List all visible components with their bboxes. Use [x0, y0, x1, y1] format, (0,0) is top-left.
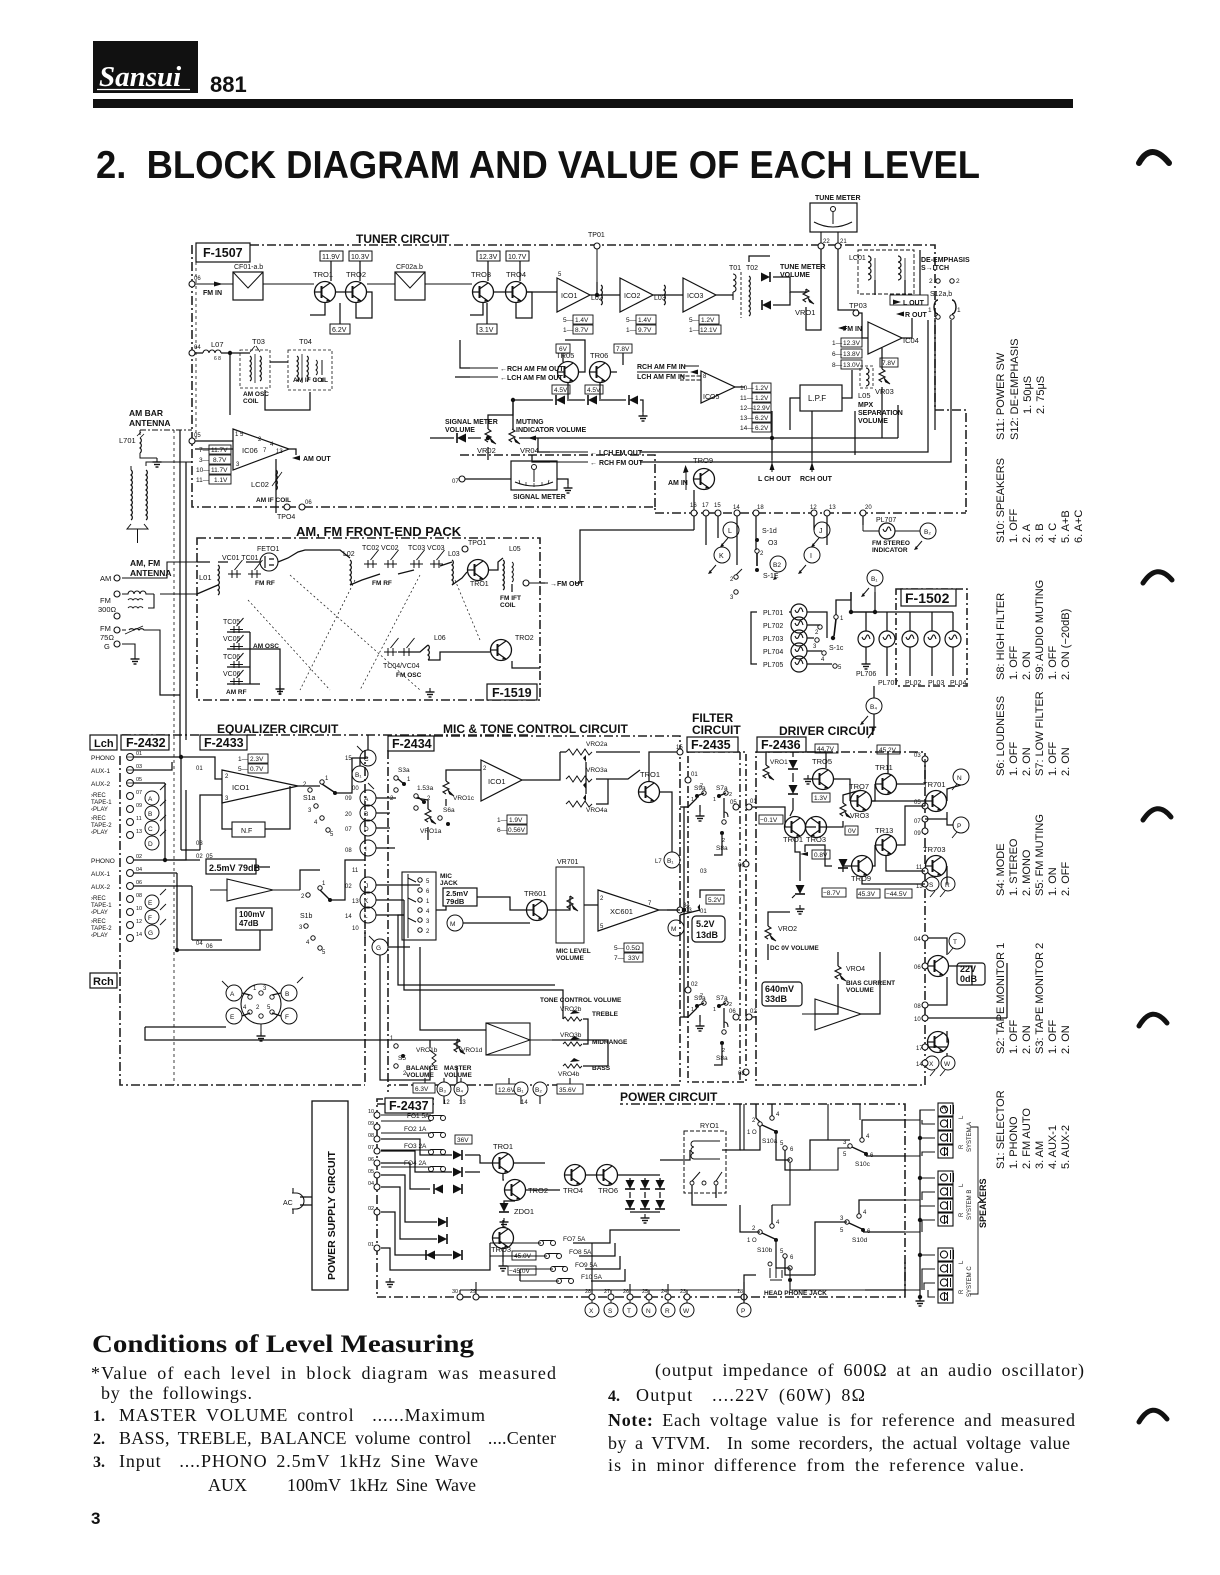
value box 10.3V [349, 251, 372, 261]
svg-text:12.3V: 12.3V [843, 340, 861, 347]
svg-text:RCH OUT: RCH OUT [800, 476, 833, 483]
value box -8.7V [822, 888, 846, 897]
svg-text:7—: 7— [199, 447, 210, 454]
svg-text:S10b: S10b [757, 1247, 773, 1254]
box 100mV 47dB [236, 908, 272, 930]
wire L701 to bus [140, 430, 192, 435]
coil LC01 assembly [849, 250, 914, 294]
wires tone pots [560, 752, 640, 804]
driver circuit border F-2436 [756, 752, 925, 1085]
svg-text:2. ON: 2. ON [1060, 1025, 1072, 1054]
label F-1519 [487, 684, 537, 700]
value box 3.1V [477, 324, 497, 334]
svg-text:L7: L7 [655, 859, 662, 865]
value box 1.3V [812, 793, 830, 802]
RCH AM FM OUT arrow [470, 366, 564, 373]
node S [925, 877, 939, 891]
node P pw [737, 1300, 751, 1317]
trimmer TC06 [223, 653, 244, 668]
node 07 [459, 476, 465, 482]
svg-text:TAPE-1: TAPE-1 [91, 903, 112, 909]
Sansui logo [93, 41, 198, 93]
svg-text:6. A+C: 6. A+C [1073, 510, 1085, 543]
coil L07 [203, 340, 224, 362]
node E circ [145, 889, 166, 909]
value box -45.0V [508, 1266, 536, 1275]
svg-text:S6a: S6a [443, 807, 455, 814]
svg-text:10: 10 [136, 906, 142, 912]
tube socket [241, 984, 281, 1032]
svg-text:VRO4: VRO4 [846, 966, 865, 973]
svg-text:→FM OUT: →FM OUT [550, 581, 585, 588]
switch S7a top [713, 785, 732, 803]
value box 7.8V [614, 344, 632, 353]
transistor TR03 drv [806, 817, 827, 845]
node 18 [753, 510, 759, 516]
svg-text:TRO2: TRO2 [346, 270, 366, 279]
svg-text:Sansui: Sansui [99, 61, 181, 93]
svg-text:VRO4b: VRO4b [558, 1071, 580, 1078]
svg-text:L07: L07 [211, 340, 224, 349]
svg-text:TAPE-2: TAPE-2 [91, 926, 112, 932]
svg-text:1: 1 [928, 307, 932, 314]
svg-text:01: 01 [750, 799, 757, 805]
svg-text:12: 12 [136, 919, 142, 925]
svg-text:M: M [450, 921, 455, 928]
svg-text:MASTER VOLUME control ......M: MASTER VOLUME control ......Maximum [119, 1405, 485, 1425]
svg-text:Input ....PHONO 2.5mV 1kHz Si: Input ....PHONO 2.5mV 1kHz Sine Wave [119, 1451, 478, 1471]
svg-text:JACK: JACK [440, 880, 458, 887]
svg-text:3. B: 3. B [1034, 523, 1046, 543]
svg-text:MASTER: MASTER [444, 1065, 472, 1072]
svg-text:20: 20 [865, 505, 872, 511]
switch S7a bot [713, 995, 732, 1013]
svg-text:LC01: LC01 [849, 255, 866, 262]
FM IN arrow label [838, 326, 862, 334]
svg-text:5.2V: 5.2V [708, 897, 722, 904]
node X drv [925, 1056, 939, 1070]
svg-text:7—: 7— [614, 955, 625, 962]
svg-text:14: 14 [345, 914, 352, 920]
node A bus [360, 790, 376, 806]
svg-text:K: K [719, 553, 724, 560]
svg-text:1.4V: 1.4V [575, 317, 589, 324]
svg-text:VRO3: VRO3 [850, 813, 869, 820]
value box 11.9V [320, 251, 343, 261]
svg-text:0V: 0V [848, 828, 857, 835]
svg-text:18: 18 [757, 505, 764, 511]
trimmers TC03 VC03 [408, 545, 445, 568]
node 01g [746, 804, 752, 810]
svg-text:02: 02 [691, 982, 698, 988]
svg-text:T: T [953, 939, 957, 946]
svg-text:TR13: TR13 [875, 826, 893, 835]
node X pw [585, 1300, 599, 1317]
svg-text:2: 2 [729, 1002, 732, 1008]
svg-text:VRO1: VRO1 [795, 308, 815, 317]
svg-text:FO9 5A: FO9 5A [575, 1262, 598, 1269]
jack S8a top [716, 812, 728, 852]
wires tr group [480, 1155, 560, 1262]
svg-text:TRO1: TRO1 [640, 770, 660, 779]
svg-text:P: P [741, 1308, 745, 1315]
RCH FM OUT arrow [550, 460, 644, 467]
svg-text:17: 17 [916, 1046, 923, 1052]
value box 35.6V [557, 1084, 583, 1094]
svg-text:Conditions of Level Measuring: Conditions of Level Measuring [92, 1331, 475, 1358]
switch S1a [303, 776, 337, 838]
wire am out [276, 449, 296, 513]
svg-text:PL03: PL03 [928, 680, 944, 687]
wires tro1 mt [649, 752, 680, 852]
ceramic filter CF01-a.b [233, 264, 263, 300]
svg-text:11.7V: 11.7V [211, 467, 228, 474]
wires selector area [740, 1104, 905, 1303]
svg-text:TR703: TR703 [923, 845, 946, 854]
node 06b [299, 500, 312, 510]
svg-text:6.2V: 6.2V [332, 327, 347, 334]
label F-1507 [196, 243, 250, 262]
svg-text:TUNE METER: TUNE METER [815, 195, 861, 202]
svg-text:PL04: PL04 [950, 680, 966, 687]
fuse F08 [490, 1249, 592, 1259]
R OUT arrow [896, 312, 928, 320]
node 06 [189, 281, 195, 287]
svg-text:S10a: S10a [762, 1138, 778, 1145]
svg-text:5—: 5— [689, 317, 700, 324]
svg-text:L: L [364, 913, 368, 920]
svg-text:8.7V: 8.7V [575, 327, 589, 334]
lamp a [858, 631, 874, 647]
lamp e [945, 631, 961, 647]
mpx separation volume pot VR03 [858, 369, 903, 425]
svg-text:04: 04 [136, 867, 142, 873]
value boxes xc601 [614, 943, 643, 962]
svg-text:10—: 10— [196, 467, 210, 474]
svg-text:13: 13 [352, 899, 359, 905]
svg-text:02: 02 [136, 854, 142, 860]
svg-text:05: 05 [368, 1169, 374, 1175]
svg-text:TR11: TR11 [875, 763, 893, 772]
svg-text:VOLUME: VOLUME [846, 987, 874, 994]
op-amp IC05 [701, 371, 735, 403]
svg-text:2: 2 [956, 278, 960, 285]
wire speaker collector [919, 1110, 921, 1297]
svg-text:35.6V: 35.6V [559, 1087, 577, 1094]
svg-text:FM STEREO: FM STEREO [872, 540, 910, 547]
pot VR03 drv [840, 803, 869, 820]
svg-text:SIGNAL METER: SIGNAL METER [513, 494, 566, 501]
svg-text:AC: AC [283, 1200, 293, 1207]
transistor TR11 [875, 763, 897, 795]
node S-1E fix [0, 0, 1, 1]
svg-text:S3: TAPE MONITOR 2: S3: TAPE MONITOR 2 [1034, 943, 1046, 1054]
svg-text:−8.7V: −8.7V [823, 890, 841, 897]
wires TR05 TR06 [563, 340, 623, 399]
svg-text:L01: L01 [199, 573, 212, 582]
svg-text:VOLUME: VOLUME [445, 427, 475, 434]
svg-text:1.4V: 1.4V [638, 317, 652, 324]
wire TRO1-TRO2 bias [310, 261, 372, 324]
svg-text:11—: 11— [196, 477, 210, 484]
wire fm out to tuner [575, 530, 694, 583]
fuse F04 [381, 1160, 446, 1172]
svg-text:ICO1: ICO1 [232, 783, 250, 792]
node B2 [770, 556, 786, 580]
svg-text:L05: L05 [858, 391, 871, 400]
svg-text:TRO1: TRO1 [313, 270, 333, 279]
transistor TRO1 mt [639, 770, 661, 803]
junction dots various [595, 293, 599, 297]
switch S-1c [813, 615, 844, 671]
svg-text:P: P [957, 823, 961, 830]
svg-text:PL705: PL705 [763, 662, 783, 669]
wire mic to filter rails [667, 807, 688, 1017]
svg-text:06: 06 [305, 500, 312, 506]
svg-text:PL706: PL706 [856, 671, 876, 678]
ground drv1 [804, 775, 813, 784]
svg-text:1—: 1— [689, 327, 700, 334]
svg-text:4. C: 4. C [1047, 523, 1059, 543]
svg-text:5—: 5— [563, 317, 574, 324]
svg-text:IC06: IC06 [242, 446, 258, 455]
svg-text:3. AM: 3. AM [1034, 1141, 1046, 1169]
svg-text:09: 09 [914, 831, 921, 837]
svg-text:FO7 5A: FO7 5A [563, 1236, 586, 1243]
svg-text:B₁: B₁ [667, 858, 674, 865]
svg-text:S-1d: S-1d [762, 528, 777, 535]
svg-text:FM IN: FM IN [203, 290, 222, 297]
svg-text:06: 06 [914, 965, 921, 971]
node S pw [604, 1300, 618, 1317]
RCH AM FM IN label [637, 364, 699, 375]
pot VR01c [443, 781, 475, 802]
svg-text:7.8V: 7.8V [882, 360, 896, 367]
svg-text:0.7V: 0.7V [250, 766, 264, 773]
svg-text:TRO5: TRO5 [812, 757, 832, 766]
wire diode row [513, 400, 643, 430]
ground meter [564, 484, 573, 493]
svg-text:TUNER CIRCUIT: TUNER CIRCUIT [356, 232, 450, 246]
svg-text:TRO9: TRO9 [693, 456, 713, 465]
svg-text:F: F [285, 1014, 289, 1021]
op-amp IC06 [233, 429, 289, 470]
label Rch [90, 973, 117, 988]
svg-text:TRO3: TRO3 [806, 835, 826, 844]
svg-text:01: 01 [700, 909, 707, 915]
node 05f [733, 804, 739, 810]
svg-text:22: 22 [823, 239, 830, 245]
node G circ [145, 919, 166, 939]
svg-text:13: 13 [459, 1100, 466, 1106]
psu terminals col [368, 1109, 380, 1251]
svg-text:01: 01 [368, 1242, 374, 1248]
svg-text:R: R [665, 1308, 670, 1315]
svg-text:TC03 VC03: TC03 VC03 [408, 545, 445, 552]
tuner circuit block border F-1507 [192, 245, 966, 513]
node B1 bus [352, 766, 374, 789]
svg-text:07: 07 [345, 827, 352, 833]
svg-text:BASS, TREBLE, BALANCE volume c: BASS, TREBLE, BALANCE volume control ...… [119, 1428, 556, 1448]
node M circ [447, 915, 463, 931]
fuse F02 [381, 1126, 446, 1138]
svg-text:AM: AM [100, 574, 111, 583]
value box -0.1V [759, 815, 783, 824]
value box 12.6V [496, 1084, 522, 1094]
node 08f [743, 1069, 749, 1075]
AM OUT arrow [292, 456, 331, 464]
input terminal REC TAPE-2 PLAY L [91, 816, 142, 839]
svg-text:09: 09 [136, 803, 142, 809]
node A2 [222, 981, 242, 1001]
wire antenna to frontend [122, 562, 197, 670]
svg-text:1. OFF: 1. OFF [1047, 645, 1059, 680]
trimmers TC04 VC04 [383, 638, 422, 679]
svg-text:00: 00 [352, 786, 359, 792]
wires ic01 nf [181, 757, 320, 850]
svg-text:COIL: COIL [243, 398, 259, 405]
svg-text:75Ω: 75Ω [100, 633, 114, 642]
svg-text:3.1V: 3.1V [479, 327, 494, 334]
svg-text:‹PLAY: ‹PLAY [91, 830, 108, 836]
svg-text:B₄: B₄ [870, 704, 877, 711]
svg-text:VOLUME: VOLUME [444, 1072, 472, 1079]
transistor TR601 [524, 889, 548, 921]
svg-text:14: 14 [916, 1062, 923, 1068]
svg-text:S→ITCH: S→ITCH [921, 265, 949, 272]
svg-text:T: T [627, 1308, 631, 1315]
node 15 [715, 510, 721, 516]
svg-text:SIGNAL METER: SIGNAL METER [445, 419, 498, 426]
svg-text:1. OFF: 1. OFF [1008, 1019, 1020, 1054]
label F-1502 [901, 589, 956, 606]
wire b4 drop [873, 686, 875, 698]
AC plug [283, 1188, 306, 1214]
svg-text:5.2V: 5.2V [696, 919, 715, 929]
svg-text:ZDO1: ZDO1 [514, 1207, 534, 1216]
svg-text:02: 02 [345, 884, 352, 890]
svg-text:VRO1c: VRO1c [453, 795, 475, 802]
svg-text:5. AUX-2: 5. AUX-2 [1060, 1125, 1072, 1169]
svg-text:F-2436: F-2436 [761, 738, 801, 752]
diode col A [625, 1180, 665, 1209]
svg-text:−44.5V: −44.5V [886, 891, 907, 898]
coil L02f [343, 551, 355, 585]
LCH AM FM OUT arrow [470, 375, 563, 382]
svg-text:06: 06 [136, 880, 142, 886]
value box 45.3V [857, 889, 880, 898]
svg-text:D: D [148, 841, 153, 848]
wires driver bottom [768, 801, 1007, 1056]
svg-text:AUX 100mV 1kHz Sine Wave: AUX 100mV 1kHz Sine Wave [208, 1475, 476, 1495]
svg-text:−0.1V: −0.1V [760, 817, 778, 824]
svg-text:640mV: 640mV [765, 984, 794, 994]
node TPO4 [277, 504, 295, 521]
wire left vertical bus a [179, 430, 181, 757]
svg-text:3: 3 [91, 1509, 100, 1528]
svg-text:XC601: XC601 [610, 907, 633, 916]
svg-text:1.1V: 1.1V [214, 477, 228, 484]
svg-text:1 5: 1 5 [235, 432, 244, 438]
svg-text:1. OFF: 1. OFF [1047, 1019, 1059, 1054]
svg-text:S12: DE-EMPHASIS: S12: DE-EMPHASIS [1009, 339, 1021, 440]
ceramic filter CF02a.b [395, 264, 425, 300]
svg-text:L03: L03 [448, 551, 460, 558]
wires right column [735, 250, 935, 460]
svg-text:O3: O3 [768, 540, 777, 547]
svg-text:MIC: MIC [440, 873, 452, 880]
rule [93, 99, 1073, 108]
svg-text:AM IF COIL: AM IF COIL [293, 377, 328, 384]
svg-text:11.9V: 11.9V [322, 254, 340, 261]
svg-text:PL704: PL704 [763, 649, 783, 656]
transistor TR13 [875, 826, 897, 856]
svg-text:›REC: ›REC [91, 919, 106, 925]
svg-text:SYSTEM C: SYSTEM C [967, 1266, 973, 1297]
svg-text:MPX: MPX [858, 402, 874, 409]
wire FM IN [195, 283, 314, 285]
svg-text:HEAD PHONE JACK: HEAD PHONE JACK [764, 1290, 827, 1297]
svg-text:08: 08 [368, 1133, 374, 1139]
diode drv3 [838, 859, 848, 868]
tune meter box [810, 195, 861, 232]
switch S1b [299, 881, 332, 956]
node 34 [677, 907, 683, 913]
svg-text:10: 10 [914, 1017, 921, 1023]
fuse F03 [381, 1143, 446, 1155]
svg-text:13.0V: 13.0V [843, 362, 861, 369]
svg-text:1—: 1— [563, 327, 574, 334]
svg-text:4.5V: 4.5V [587, 387, 601, 394]
lamp d [924, 631, 940, 647]
svg-text:VRO3a: VRO3a [586, 767, 608, 774]
node T [948, 933, 965, 954]
svg-text:33V: 33V [628, 955, 640, 962]
ground zd01 [500, 1218, 509, 1227]
pot VR03b [560, 1032, 628, 1046]
wire ic01mt [460, 752, 560, 780]
svg-text:FM IFT: FM IFT [500, 595, 521, 602]
svg-text:J: J [365, 883, 368, 890]
svg-text:33dB: 33dB [765, 994, 788, 1004]
svg-text:TONE CONTROL VOLUME: TONE CONTROL VOLUME [540, 997, 622, 1004]
node L [720, 522, 739, 547]
ground antenna [131, 655, 140, 664]
svg-text:6—: 6— [497, 827, 508, 834]
svg-text:0.56V: 0.56V [508, 827, 526, 834]
diode TD2 [762, 300, 771, 310]
svg-text:S10: SPEAKERS: S10: SPEAKERS [995, 458, 1007, 543]
node B1 mt [655, 852, 680, 868]
node B3 [437, 1082, 451, 1096]
svg-text:TRO4: TRO4 [506, 270, 526, 279]
svg-text:11: 11 [352, 868, 359, 874]
svg-text:VRO2a: VRO2a [586, 741, 608, 748]
svg-text:TRO6: TRO6 [598, 1186, 618, 1195]
svg-text:F-1519: F-1519 [492, 686, 532, 700]
wire mpx riser wires [897, 405, 899, 438]
driver edge terminals 2 [914, 935, 928, 1068]
svg-text:T03: T03 [252, 337, 265, 346]
svg-text:05: 05 [136, 777, 142, 783]
svg-text:FM: FM [100, 596, 111, 605]
svg-text:S9: AUDIO MUTING: S9: AUDIO MUTING [1034, 580, 1046, 680]
svg-text:5—: 5— [626, 317, 637, 324]
transistor TRO1 [313, 270, 336, 303]
value boxes ic01 eq [238, 754, 268, 773]
svg-text:36V: 36V [457, 1137, 469, 1144]
node C circ [145, 815, 166, 835]
